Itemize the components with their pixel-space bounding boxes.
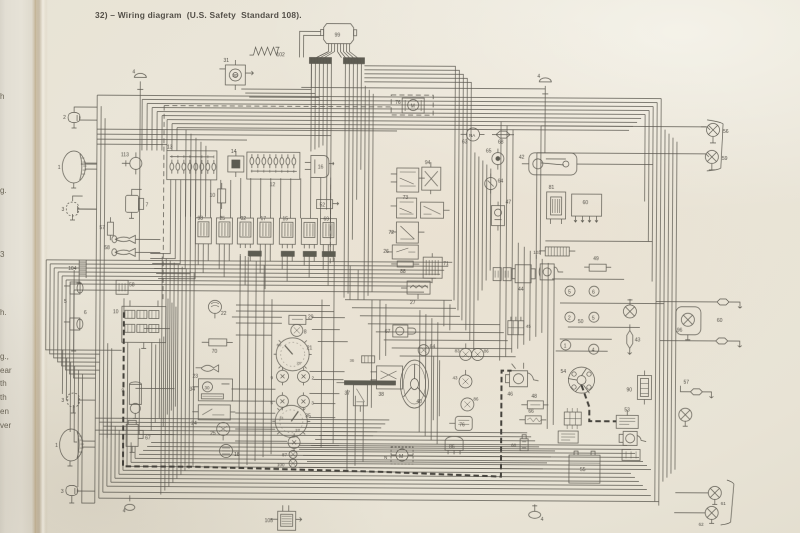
svg-text:13: 13 xyxy=(167,145,173,151)
unit 60 xyxy=(571,194,601,222)
svg-text:30: 30 xyxy=(204,385,210,390)
wire: left bottom fan xyxy=(63,350,100,374)
svg-text:52: 52 xyxy=(320,203,326,209)
svg-text:3: 3 xyxy=(62,207,65,213)
svg-text:1: 1 xyxy=(564,344,567,350)
lamp 100 xyxy=(277,459,297,467)
svg-text:57: 57 xyxy=(683,380,689,386)
svg-text:90: 90 xyxy=(626,387,632,393)
wire: U99 pin fanout xyxy=(316,51,357,57)
wire: mid-page verticals between fuse and relay rows xyxy=(210,177,330,219)
sensor 54s xyxy=(418,344,435,356)
wire: bottom bus xyxy=(99,442,659,501)
warning lamp 87a xyxy=(288,433,300,451)
warning lamp 19b xyxy=(297,367,314,385)
wire: antenna left drop xyxy=(139,89,140,260)
wire: relay legs to mid bundle xyxy=(198,248,333,290)
wire: outer top bus xyxy=(97,95,661,130)
svg-text:53: 53 xyxy=(624,407,630,413)
svg-text:66: 66 xyxy=(528,409,534,415)
plate lamp 96 xyxy=(676,307,723,340)
coil 68b xyxy=(511,435,528,451)
harness boundary dashed xyxy=(163,94,433,303)
svg-text:29: 29 xyxy=(308,314,314,320)
svg-text:103: 103 xyxy=(533,250,541,255)
distributor 54 xyxy=(560,367,594,393)
svg-text:48: 48 xyxy=(531,394,537,400)
fuse 61a xyxy=(656,299,742,309)
warning lamp 19a xyxy=(270,367,288,385)
resistor 70 xyxy=(202,339,233,355)
wire: fusebox-10 column verticals xyxy=(107,298,176,438)
svg-text:104: 104 xyxy=(68,266,77,272)
svg-text:4: 4 xyxy=(541,517,544,523)
svg-text:60: 60 xyxy=(583,200,589,206)
svg-text:17: 17 xyxy=(260,216,266,222)
lamp 87 xyxy=(282,450,297,458)
svg-text:47: 47 xyxy=(506,200,512,206)
connector comb A xyxy=(309,57,331,63)
switch 52 xyxy=(317,199,339,208)
wire: center-left verticals xyxy=(186,130,207,217)
svg-text:98: 98 xyxy=(197,216,203,222)
relay box U31 with circle 30 xyxy=(219,58,253,90)
resistor 66c xyxy=(519,409,546,424)
svg-text:15: 15 xyxy=(282,216,288,222)
horn 58a xyxy=(112,235,136,243)
flasher 25b xyxy=(210,422,230,440)
heater fan N xyxy=(391,447,413,464)
stop switch bar 5/6 xyxy=(64,270,87,351)
flasher 86b xyxy=(461,396,479,411)
flasher 86a xyxy=(472,348,490,360)
fuse box 10 xyxy=(112,300,166,438)
wire: top bus left hooks xyxy=(142,99,177,150)
svg-text:50: 50 xyxy=(578,319,584,325)
antenna 4 right xyxy=(537,74,551,94)
svg-text:68: 68 xyxy=(511,443,517,448)
svg-text:46: 46 xyxy=(507,392,513,398)
ignition terminal 5a xyxy=(565,286,575,296)
ground bottom-left xyxy=(123,495,135,514)
svg-text:2: 2 xyxy=(63,115,66,121)
ignition terminal 1a xyxy=(561,340,571,350)
speedometer 21 xyxy=(274,338,313,371)
svg-text:49: 49 xyxy=(593,256,599,262)
side lamp 3'' xyxy=(61,485,95,503)
ground bottom-center xyxy=(529,504,544,523)
svg-text:9: 9 xyxy=(271,375,274,380)
sensor 18 xyxy=(220,444,240,458)
svg-text:56: 56 xyxy=(723,129,729,135)
svg-text:65: 65 xyxy=(486,149,492,155)
switch 27 xyxy=(401,281,430,306)
motor 7 xyxy=(125,189,148,218)
relay 76b xyxy=(449,416,472,430)
junction comb 104 xyxy=(68,260,86,283)
svg-text:N: N xyxy=(384,455,387,460)
svg-text:96: 96 xyxy=(677,328,683,334)
svg-text:86: 86 xyxy=(449,444,455,450)
wire: right-mid verticals xyxy=(499,122,555,429)
battery 55 xyxy=(569,451,600,483)
svg-text:1: 1 xyxy=(58,165,61,171)
wire: comb B fanout down xyxy=(344,64,373,300)
headlamp 1 xyxy=(58,151,97,188)
svg-text:M: M xyxy=(399,454,403,460)
switch 24 xyxy=(191,405,235,427)
wire: lower center mesh verticals xyxy=(239,254,358,470)
svg-text:43: 43 xyxy=(453,375,459,380)
svg-text:6: 6 xyxy=(84,310,87,316)
svg-text:36: 36 xyxy=(350,358,355,363)
switch 94 xyxy=(422,160,441,194)
svg-text:100: 100 xyxy=(277,462,285,467)
relay 17 xyxy=(257,216,273,248)
svg-text:68: 68 xyxy=(498,140,504,146)
starter 46 xyxy=(505,363,538,398)
svg-text:59: 59 xyxy=(722,156,728,162)
svg-text:45: 45 xyxy=(526,324,532,329)
resistor 48 xyxy=(521,394,548,409)
fuse 88 xyxy=(391,261,419,275)
svg-text:6: 6 xyxy=(592,290,595,296)
wire: upper-left horizontals xyxy=(97,129,397,146)
relay 15 xyxy=(279,216,295,248)
fuel gauge 35 xyxy=(272,405,311,437)
svg-text:58: 58 xyxy=(129,282,135,288)
fuse box 80 xyxy=(622,449,640,460)
fuse box 12 xyxy=(247,152,300,188)
svg-text:87: 87 xyxy=(282,452,288,457)
wire: lower horizontal runs xyxy=(299,431,555,469)
blower motor U76 xyxy=(395,98,424,113)
side lamp 2 xyxy=(63,107,82,128)
svg-text:25: 25 xyxy=(210,431,216,437)
odometer 103 xyxy=(533,247,575,256)
wiper motor 67b xyxy=(385,325,416,337)
svg-text:58: 58 xyxy=(104,245,110,251)
horn 22 xyxy=(208,300,226,318)
wire: left-center vertical bundle xyxy=(161,257,194,495)
svg-text:12: 12 xyxy=(270,182,276,188)
fuse 57b xyxy=(680,380,713,398)
svg-text:2: 2 xyxy=(568,316,571,322)
fuse box 13 xyxy=(167,145,217,180)
relay 02 xyxy=(237,216,253,248)
svg-text:10: 10 xyxy=(113,309,119,315)
wire: front lamp harness right top xyxy=(300,63,706,259)
svg-text:24: 24 xyxy=(191,421,197,427)
rear lamp 62c xyxy=(674,506,718,527)
relay 25 xyxy=(216,216,232,248)
wire: mid horizontals to right section xyxy=(345,300,516,357)
wire: left lamp feeds xyxy=(78,107,98,209)
rear lamp housing xyxy=(721,480,734,525)
connector 90 xyxy=(626,370,651,404)
switch 73a xyxy=(391,168,425,201)
ignition terminal 2a xyxy=(565,312,575,322)
headlamp 1' xyxy=(55,429,95,466)
wire: horn/washer links xyxy=(95,239,175,434)
svg-text:54: 54 xyxy=(561,369,567,375)
svg-text:44: 44 xyxy=(518,287,524,293)
parking lamp 3 xyxy=(66,202,79,216)
svg-text:22: 22 xyxy=(221,311,227,317)
svg-text:69: 69 xyxy=(323,217,329,223)
parking lamp 3' xyxy=(67,393,80,407)
svg-text:38: 38 xyxy=(378,392,384,398)
condenser 43 xyxy=(627,324,641,354)
resistor R102 zigzag xyxy=(249,47,285,58)
dynamo 51 xyxy=(539,264,563,280)
steering wheel 40 xyxy=(400,360,428,408)
wire: mid bundle left drops xyxy=(46,260,97,378)
svg-text:3: 3 xyxy=(61,398,64,404)
switch 47 xyxy=(491,200,511,231)
horn 58b xyxy=(104,245,135,256)
flasher lamp 28 xyxy=(291,324,307,336)
lamp 66 xyxy=(623,299,636,318)
washer pump 67 xyxy=(126,420,151,452)
flasher 43b xyxy=(452,370,472,388)
wire: U99 left tab wires xyxy=(299,31,320,57)
svg-text:02: 02 xyxy=(240,216,246,222)
svg-text:35: 35 xyxy=(305,413,311,419)
svg-text:4: 4 xyxy=(123,508,126,514)
flasher 83 xyxy=(455,343,472,360)
svg-text:70: 70 xyxy=(212,349,218,355)
connector comb B xyxy=(343,58,364,64)
relay 53 xyxy=(616,407,638,428)
wire: comb outputs left xyxy=(241,65,471,148)
resistor 10b xyxy=(210,183,226,209)
regulator 89 xyxy=(558,431,578,443)
svg-text:26: 26 xyxy=(383,249,389,255)
svg-text:1: 1 xyxy=(55,443,58,449)
connector grid 62 xyxy=(564,408,581,429)
wire: right trunk xyxy=(643,98,677,505)
switch unit 33 xyxy=(189,379,232,401)
svg-text:76: 76 xyxy=(395,100,401,106)
ignition lock 42 xyxy=(519,153,653,176)
flasher 63 xyxy=(460,128,484,146)
lamp 66b xyxy=(679,408,692,426)
svg-text:102: 102 xyxy=(276,52,285,58)
svg-text:25: 25 xyxy=(219,216,225,222)
wire: antenna right drop xyxy=(544,94,546,153)
svg-text:113: 113 xyxy=(121,152,129,158)
svg-text:94: 94 xyxy=(425,160,431,166)
ignition terminal 6a xyxy=(589,286,599,296)
svg-text:67: 67 xyxy=(145,435,151,441)
wire: bottom bus left risers xyxy=(107,418,135,486)
connector comb C xyxy=(248,251,335,257)
wire: right area horizontals xyxy=(545,241,665,352)
svg-text:105: 105 xyxy=(265,518,274,524)
panel connector 36 xyxy=(350,356,375,363)
svg-text:3: 3 xyxy=(311,400,314,405)
fuse 68 xyxy=(492,131,514,146)
wire: left frame verticals xyxy=(95,95,105,503)
dash panel bar xyxy=(336,381,395,385)
svg-text:71: 71 xyxy=(443,261,449,267)
switch 72 xyxy=(388,222,424,243)
svg-text:42: 42 xyxy=(519,155,525,161)
svg-text:61: 61 xyxy=(721,501,727,506)
ignition terminal 5b xyxy=(578,312,599,325)
svg-text:62: 62 xyxy=(699,522,705,527)
relay 29 xyxy=(289,314,314,324)
column switch 38 xyxy=(370,366,402,398)
svg-text:4: 4 xyxy=(592,348,595,354)
svg-text:86: 86 xyxy=(473,396,479,401)
regulator 16 xyxy=(305,155,334,177)
ignition terminal 4a xyxy=(589,344,599,354)
svg-text:20: 20 xyxy=(297,360,302,365)
fuel sender 105 xyxy=(265,505,302,530)
svg-text:55: 55 xyxy=(580,467,586,473)
svg-text:18: 18 xyxy=(234,452,240,458)
svg-text:31: 31 xyxy=(223,58,229,64)
switch 26 xyxy=(383,245,418,259)
wire: cable verticals at dash xyxy=(123,298,590,393)
switch 73b xyxy=(391,198,417,218)
wire: center trunk verticals xyxy=(454,132,491,350)
svg-text:14: 14 xyxy=(231,149,237,155)
connector 45b xyxy=(508,317,532,335)
svg-text:5: 5 xyxy=(64,299,67,305)
svg-text:5: 5 xyxy=(592,316,595,322)
connector 58c xyxy=(116,280,135,294)
alternator 52b xyxy=(619,431,646,445)
svg-text:27: 27 xyxy=(410,300,416,306)
lamp 56 xyxy=(701,123,729,143)
antenna 4 left xyxy=(132,69,146,89)
horn 86c xyxy=(445,436,463,454)
relay 14 xyxy=(228,149,244,177)
svg-text:34: 34 xyxy=(189,387,195,393)
control unit U99 xyxy=(321,24,357,52)
washer reservoir 9 xyxy=(121,382,141,419)
svg-text:64: 64 xyxy=(430,344,436,350)
resistor 49 xyxy=(584,256,611,271)
wiper motor 44 xyxy=(512,265,535,293)
svg-text:4: 4 xyxy=(537,74,540,80)
wire: lower center mesh horizontals xyxy=(95,304,390,446)
svg-text:88: 88 xyxy=(400,269,406,275)
svg-text:10: 10 xyxy=(210,193,216,199)
switch 37 xyxy=(344,385,367,412)
warning lamp 19d xyxy=(297,392,314,410)
svg-text:5: 5 xyxy=(568,290,571,296)
buzzer 23 xyxy=(193,365,219,380)
svg-text:7: 7 xyxy=(146,202,149,208)
svg-text:86: 86 xyxy=(484,349,490,354)
svg-text:30: 30 xyxy=(232,73,238,78)
svg-text:37: 37 xyxy=(344,391,350,397)
warning lamp 19c xyxy=(270,392,288,410)
wire: lower right mesh verticals xyxy=(347,300,450,471)
fuse 61b xyxy=(660,338,742,348)
horn button 65 xyxy=(486,149,504,170)
lamp 59 xyxy=(700,150,728,170)
svg-text:8: 8 xyxy=(304,329,307,335)
svg-text:NA: NA xyxy=(469,133,475,138)
switch 95 xyxy=(421,202,450,218)
relay 69a xyxy=(301,218,317,248)
rear lamp 61c xyxy=(675,486,726,506)
svg-text:76: 76 xyxy=(459,422,465,428)
svg-text:83: 83 xyxy=(455,348,461,353)
connector 61 xyxy=(423,253,449,283)
lighter 64 xyxy=(485,174,504,194)
svg-text:64: 64 xyxy=(498,179,504,185)
svg-text:4: 4 xyxy=(132,69,135,75)
svg-text:43: 43 xyxy=(635,337,641,343)
svg-text:M: M xyxy=(411,104,415,110)
instrument 81 xyxy=(546,185,565,224)
svg-text:21: 21 xyxy=(307,345,313,351)
resistor 57 xyxy=(99,217,113,240)
wire: left bottom fan drops xyxy=(62,350,96,503)
svg-text:63: 63 xyxy=(462,139,468,145)
relay 69 xyxy=(320,217,336,249)
svg-text:99: 99 xyxy=(335,33,341,39)
wiper plug 45 xyxy=(493,268,511,281)
battery cable dashed xyxy=(123,312,617,477)
svg-text:60: 60 xyxy=(717,318,723,324)
horn relay 113 xyxy=(121,152,142,174)
wire: mid horizontal bundle xyxy=(46,260,452,292)
svg-text:67: 67 xyxy=(385,329,391,335)
svg-text:60: 60 xyxy=(277,342,282,347)
svg-text:57: 57 xyxy=(99,225,105,231)
wire: fusebox13 fan corners to mid bundle xyxy=(150,179,196,278)
svg-text:16: 16 xyxy=(318,164,324,170)
relay 98 xyxy=(195,216,211,248)
wire: comb A fanout down xyxy=(310,63,331,254)
svg-text:72: 72 xyxy=(388,230,394,236)
lamp housing top-right xyxy=(707,120,723,171)
svg-text:81: 81 xyxy=(549,185,555,191)
svg-text:40: 40 xyxy=(416,399,422,405)
svg-text:3: 3 xyxy=(61,489,64,495)
